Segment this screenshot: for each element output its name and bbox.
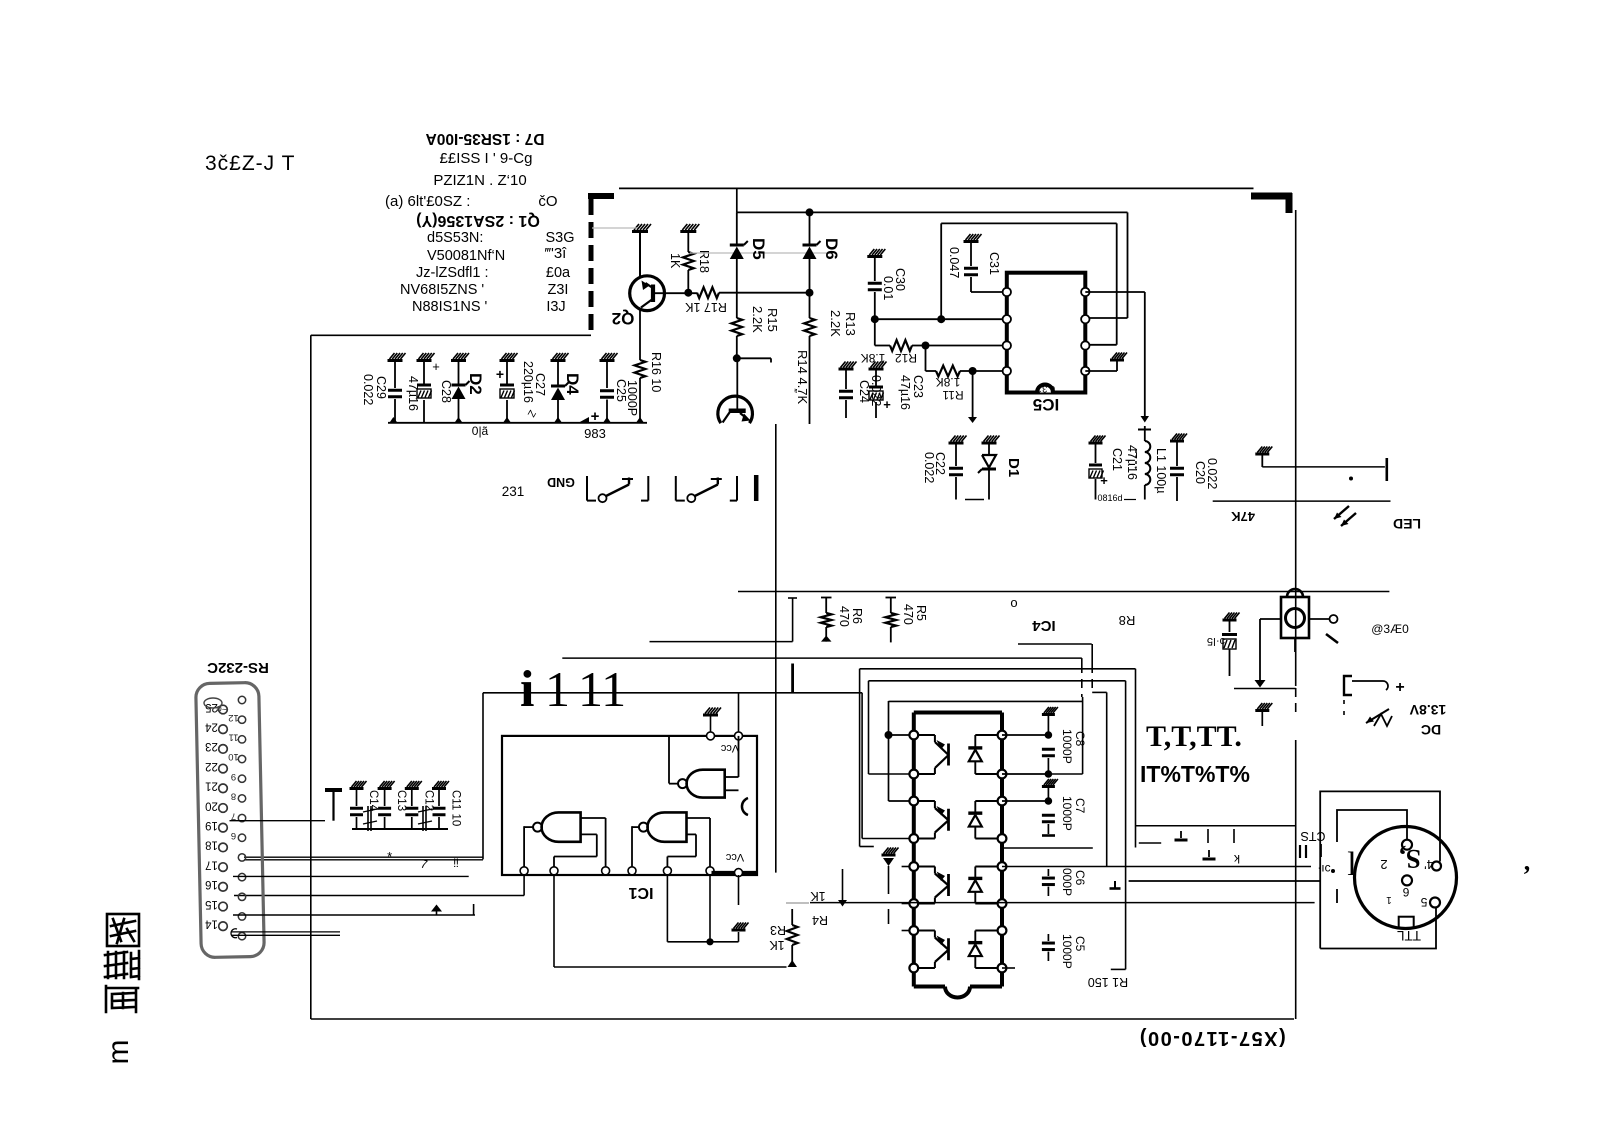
svg-text:1K: 1K bbox=[810, 889, 826, 903]
svg-text:C20: C20 bbox=[1193, 461, 1207, 484]
svg-text:čO: čO bbox=[538, 193, 557, 210]
wire R17 to D6 bbox=[719, 292, 810, 294]
svg-text:13.8V: 13.8V bbox=[1409, 702, 1446, 718]
scan artifact gray line bbox=[592, 227, 637, 229]
capacitor C28 electrolytic bbox=[417, 359, 432, 362]
svg-text:2.2K: 2.2K bbox=[828, 310, 843, 337]
wire down to R11 row bbox=[925, 346, 927, 372]
wire vcc top pin to bus bbox=[738, 693, 740, 736]
transistor Q2 bbox=[630, 276, 665, 311]
wire opto row6 to DIN bbox=[810, 902, 1315, 904]
inductor L1 bbox=[1144, 426, 1146, 441]
wire pin554 down to R3 bottom row bbox=[553, 875, 555, 967]
diode D4 bbox=[551, 359, 566, 362]
capacitor C29 bbox=[388, 359, 403, 362]
capacitor C21 electrolytic bbox=[1089, 442, 1103, 445]
dashed wire x1081 from y658 to opto row2 bbox=[1081, 658, 1083, 664]
svg-text:IC4: IC4 bbox=[1032, 617, 1056, 634]
svg-text:1000P: 1000P bbox=[1060, 729, 1074, 764]
IC5 body bbox=[1007, 273, 1086, 393]
capacitor C23 electrolytic bbox=[869, 368, 884, 371]
thick bar after switches bbox=[754, 475, 759, 501]
svg-text:4': 4' bbox=[1424, 857, 1434, 872]
capacitor C6 bbox=[1047, 869, 1049, 876]
wire 47K row y501 bbox=[1213, 500, 1391, 502]
hash marks noise bbox=[367, 806, 369, 831]
resistor R6 bbox=[825, 598, 827, 614]
svg-text:I3J: I3J bbox=[546, 299, 565, 315]
svg-text:,: , bbox=[1524, 847, 1531, 876]
gray line under R4 bbox=[786, 902, 809, 904]
wire pin2 row y319 bbox=[875, 318, 1007, 320]
node left of opto1 bbox=[885, 731, 893, 739]
wire pin15 row y915 bbox=[233, 914, 475, 916]
svg-text:R12: R12 bbox=[895, 351, 917, 365]
terminal T symbol bbox=[325, 788, 342, 792]
wire pin3 row bbox=[1085, 344, 1116, 346]
IC4 body top edge bbox=[914, 711, 1002, 715]
svg-text:470: 470 bbox=[901, 604, 915, 625]
svg-text:o: o bbox=[1010, 595, 1017, 610]
nand gate G3 bbox=[647, 812, 686, 841]
IC4 body left edge bbox=[912, 713, 916, 987]
svg-text:0|ã: 0|ã bbox=[472, 424, 489, 438]
svg-text:2: 2 bbox=[1380, 857, 1387, 872]
svg-text:C5: C5 bbox=[1073, 936, 1087, 952]
svg-text:C7: C7 bbox=[1073, 798, 1087, 814]
svg-text:+: + bbox=[1100, 473, 1108, 488]
marks near DIN left bbox=[1299, 845, 1301, 858]
svg-text:m: m bbox=[102, 1040, 135, 1065]
svg-text:C29: C29 bbox=[374, 376, 388, 399]
svg-text:1: 1 bbox=[545, 661, 570, 717]
wire x1127 from bus to pin2 right bbox=[1127, 212, 1129, 318]
wire branch y826 to CTS bbox=[1136, 825, 1296, 827]
svg-text:C6: C6 bbox=[1073, 870, 1087, 886]
svg-text:6 31: 6 31 bbox=[1037, 383, 1056, 394]
wire y692 to opto pin4 bbox=[861, 693, 863, 839]
node C30 bottom bbox=[871, 315, 879, 323]
svg-text:11: 11 bbox=[229, 732, 239, 743]
svg-text:0.01: 0.01 bbox=[881, 276, 895, 300]
capacitor C12 bbox=[405, 787, 419, 790]
stub marks bbox=[1207, 829, 1209, 843]
svg-text:14: 14 bbox=[205, 918, 218, 930]
wire node down to pin3 row bbox=[888, 735, 890, 801]
optocoupler unit 2 diode bbox=[974, 801, 976, 813]
capacitor C7 bbox=[1042, 785, 1055, 788]
DB25 right column pins bbox=[238, 696, 245, 703]
svg-text:D4: D4 bbox=[563, 373, 582, 395]
svg-text:0816d: 0816d bbox=[1097, 493, 1122, 503]
svg-text:1K: 1K bbox=[769, 938, 785, 952]
svg-text:TTL: TTL bbox=[1397, 928, 1421, 943]
T mark on row y881 bbox=[1129, 880, 1321, 882]
cap row bus y829 bbox=[352, 828, 448, 830]
LED arrows bbox=[1334, 506, 1349, 519]
wire LED row y467 bbox=[1262, 466, 1385, 468]
wire branch y843 bbox=[1139, 842, 1161, 844]
wire opto row2 extension bbox=[1048, 773, 1082, 775]
wire y669 corner bbox=[860, 668, 1136, 670]
optocoupler unit 3 transistor bbox=[947, 874, 950, 896]
resistor R17 bbox=[697, 287, 719, 298]
capacitor C31 bbox=[964, 240, 979, 243]
T terminals near DIN bbox=[1180, 831, 1182, 838]
svg-text:1000P: 1000P bbox=[625, 380, 639, 416]
right main vertical wire x1296 bbox=[1295, 210, 1297, 686]
svg-text:+: + bbox=[432, 359, 440, 374]
power jack stem bbox=[1294, 638, 1296, 652]
svg-text:T,T,TT.: T,T,TT. bbox=[1146, 720, 1242, 753]
svg-text:17: 17 bbox=[205, 858, 218, 870]
svg-text:6: 6 bbox=[231, 830, 236, 841]
ground right of IC5 bbox=[1110, 359, 1124, 362]
svg-text:9: 9 bbox=[231, 771, 236, 782]
capacitor C30 bbox=[867, 255, 882, 258]
resistor R15 bbox=[731, 318, 742, 336]
svg-text:IT%T%T%: IT%T%T% bbox=[1140, 761, 1250, 787]
svg-text:R5: R5 bbox=[914, 605, 928, 621]
svg-text:*: * bbox=[387, 849, 392, 864]
bus wire y212 bbox=[737, 211, 1128, 213]
svg-text:l: l bbox=[1347, 846, 1356, 883]
DIN pin 1 top bbox=[1402, 840, 1412, 850]
svg-text:23: 23 bbox=[205, 740, 218, 752]
svg-text:47µ16: 47µ16 bbox=[406, 376, 420, 411]
svg-text:C23: C23 bbox=[911, 375, 925, 398]
wires from connector to IC1 double bbox=[244, 856, 483, 858]
stub x792 upper bbox=[791, 664, 794, 693]
svg-text:R4: R4 bbox=[812, 913, 828, 927]
wire IC5 pin1 right to L1 bbox=[1085, 291, 1145, 293]
resistor R16 bbox=[639, 309, 641, 361]
resistor R13 bbox=[804, 318, 815, 336]
svg-text:R15: R15 bbox=[765, 308, 780, 332]
stub with arrow x842 bbox=[842, 869, 844, 900]
node x941 bbox=[937, 315, 945, 323]
node R11 right bbox=[969, 367, 977, 375]
svg-text:15: 15 bbox=[205, 898, 218, 910]
svg-text:CTS: CTS bbox=[1301, 829, 1326, 843]
svg-text:C28: C28 bbox=[439, 380, 453, 403]
svg-text:5: 5 bbox=[1420, 895, 1427, 909]
svg-text:k: k bbox=[1233, 852, 1240, 866]
svg-text:N88IS1NS ': N88IS1NS ' bbox=[412, 299, 488, 315]
svg-text:47µ16: 47µ16 bbox=[898, 375, 912, 410]
ground under IC1 bbox=[738, 932, 740, 942]
svg-text:47µ16: 47µ16 bbox=[1125, 445, 1139, 480]
diode D1 bbox=[982, 442, 997, 445]
svg-text:1: 1 bbox=[1386, 894, 1392, 905]
svg-text:20: 20 bbox=[205, 799, 218, 811]
svg-text:C21: C21 bbox=[1110, 448, 1124, 471]
resistor R11 bbox=[926, 370, 937, 372]
opto lower pin stubs bbox=[902, 866, 910, 868]
wire C30 node down to R12 bbox=[874, 319, 876, 345]
power jack switch arm bbox=[1326, 634, 1338, 643]
svg-text:V50081Nf‘N: V50081Nf‘N bbox=[427, 248, 505, 264]
svg-text:R8: R8 bbox=[1119, 613, 1136, 628]
ground for Q2 collector bbox=[632, 230, 648, 233]
optocoupler unit 1 transistor bbox=[947, 744, 950, 766]
optocoupler unit 4 pins bbox=[909, 926, 918, 935]
wire pin4 from R11 bbox=[973, 370, 1007, 372]
svg-text:D7 : 1SR35-I00A: D7 : 1SR35-I00A bbox=[426, 130, 545, 147]
wire bracket to hook bbox=[1352, 680, 1383, 682]
capacitor C11 bbox=[432, 787, 446, 790]
ground inverted near DC bbox=[1255, 709, 1269, 712]
right corner bracket bbox=[1251, 193, 1292, 200]
svg-text:D1: D1 bbox=[1005, 458, 1022, 477]
wire Q2 base bbox=[655, 292, 697, 294]
optocoupler unit 4 diode bbox=[974, 931, 976, 943]
DIN outer box bbox=[1320, 791, 1440, 948]
wire y688 row bbox=[1234, 688, 1296, 690]
svg-text:i: i bbox=[520, 661, 534, 718]
svg-text:R6: R6 bbox=[850, 608, 864, 624]
IC1 left outer vertical x483 bbox=[482, 693, 484, 860]
optocoupler unit 3 pins bbox=[909, 862, 918, 871]
svg-text:R16 10: R16 10 bbox=[649, 352, 663, 392]
svg-text:£0a: £0a bbox=[546, 265, 571, 281]
DIN inner box bbox=[1337, 810, 1407, 842]
svg-text:19: 19 bbox=[205, 819, 218, 831]
IC1 bottom pins bbox=[520, 867, 528, 875]
svg-text:Z3I: Z3I bbox=[548, 282, 569, 298]
svg-text:££ISS I ' 9-Cg: ££ISS I ' 9-Cg bbox=[440, 150, 533, 167]
wire Q2 collector to ground bbox=[639, 232, 641, 279]
top bus wire y188 bbox=[619, 187, 1254, 189]
curve mark in IC1 bbox=[742, 798, 748, 815]
svg-text:(a) 6lt'£0SZ :: (a) 6lt'£0SZ : bbox=[385, 193, 470, 210]
terminal bar right bbox=[1386, 458, 1389, 481]
ground for R18 bbox=[680, 230, 696, 233]
ground arrow left of IC4 bbox=[882, 854, 896, 857]
node R15 bottom bbox=[733, 354, 741, 362]
svg-text:1K: 1K bbox=[668, 253, 682, 269]
DIN pin 5 lower bbox=[1430, 898, 1440, 908]
svg-text:24: 24 bbox=[205, 721, 218, 733]
capacitor C22 bbox=[949, 442, 964, 445]
optocoupler unit 1 pins bbox=[909, 731, 918, 740]
switch contact S2 bbox=[675, 476, 677, 501]
svg-text:000P: 000P bbox=[1060, 868, 1074, 896]
wire jack left to ground arrow bbox=[1260, 618, 1281, 620]
svg-text:18: 18 bbox=[205, 839, 218, 851]
wire R11 node down stub bbox=[972, 371, 974, 417]
svg-text:Q1 : 2SA1356(Y): Q1 : 2SA1356(Y) bbox=[416, 212, 540, 229]
node R12 right bbox=[922, 342, 930, 350]
IC1 vcc thick bar bbox=[712, 871, 758, 875]
svg-text:‴'3î: ‴'3î bbox=[545, 245, 568, 262]
wire node to transistor Q1 bbox=[736, 358, 738, 408]
svg-text:PZIZ1N . Z‘10: PZIZ1N . Z‘10 bbox=[433, 172, 526, 189]
svg-text:d5S53N:: d5S53N: bbox=[427, 230, 483, 246]
left main vertical wire x311 bbox=[310, 335, 312, 1019]
svg-text:S3G: S3G bbox=[545, 230, 574, 246]
wire loop pins 667-710 bbox=[666, 875, 668, 942]
svg-text:IC1: IC1 bbox=[628, 884, 653, 901]
IC1 top pins bbox=[707, 732, 715, 740]
svg-text:983: 983 bbox=[584, 426, 606, 441]
long vertical wire x776 bbox=[775, 424, 777, 873]
DIN connector circle bbox=[1355, 827, 1457, 929]
dashed wire x1092 from IC4 label to row5 bbox=[1091, 644, 1093, 664]
DIN bottom notch bbox=[1399, 917, 1414, 928]
left dashed border corner bbox=[588, 193, 614, 199]
node D6 top bbox=[806, 208, 814, 216]
svg-text:+: + bbox=[1395, 679, 1404, 696]
wire pin3 from R12 bbox=[926, 345, 1007, 347]
svg-text:10: 10 bbox=[228, 751, 239, 762]
svg-text:47K: 47K bbox=[1230, 509, 1254, 524]
optocoupler unit 1 diode bbox=[974, 735, 976, 748]
IC4 body bottom edge with notch bbox=[914, 985, 945, 989]
wire vcc pin stub down bbox=[738, 875, 740, 905]
IC1 box bbox=[502, 736, 757, 875]
optocoupler unit 2 transistor bbox=[947, 809, 950, 831]
wire y693 bus bbox=[483, 692, 862, 694]
svg-text:R13: R13 bbox=[843, 312, 858, 336]
DB25 connector body bbox=[196, 682, 265, 957]
bus wire y658 bbox=[562, 657, 1082, 659]
svg-text:GND: GND bbox=[547, 475, 575, 489]
wire y701 from node to x1082 bbox=[889, 700, 1083, 702]
ferrite bracket bbox=[1344, 676, 1352, 695]
svg-text:S,: S, bbox=[1399, 844, 1421, 874]
svg-text:NV68I5ZNS ': NV68I5ZNS ' bbox=[400, 282, 484, 298]
bottom bus wire y1019 bbox=[311, 1018, 1294, 1020]
svg-text:22: 22 bbox=[205, 760, 218, 772]
wire pin17 row y876 bbox=[233, 875, 469, 877]
capacitor C24 bbox=[839, 368, 854, 371]
DB25 left column pins bbox=[219, 705, 228, 714]
resistor R3 bbox=[791, 909, 793, 925]
wire y223 row bbox=[941, 222, 1116, 224]
wire opto row5 to DIN bbox=[1002, 866, 1311, 868]
DIN pin 4 right bbox=[1432, 862, 1441, 871]
svg-text:0.047: 0.047 bbox=[947, 247, 961, 278]
IC4 body right edge bbox=[1000, 713, 1004, 987]
transistor Q1 (lower) bbox=[718, 396, 753, 423]
capacitor C25 bbox=[600, 359, 615, 362]
capacitor C5 bbox=[1047, 934, 1049, 941]
power jack right contact bbox=[1309, 618, 1330, 620]
switch contact S1 bbox=[586, 476, 588, 501]
optocoupler unit 3 diode bbox=[974, 867, 976, 879]
svg-text:0.022: 0.022 bbox=[1205, 458, 1219, 489]
DC input arrow bbox=[1366, 709, 1389, 723]
wire y848 from IC4 edge bbox=[1004, 847, 1093, 849]
DIN connector wires from left bbox=[1129, 880, 1321, 882]
small dot mark bbox=[1349, 477, 1353, 481]
svg-text:IC5: IC5 bbox=[1033, 395, 1059, 414]
svg-text:R14 4.7K: R14 4.7K bbox=[795, 350, 810, 405]
svg-text:L1 100µ: L1 100µ bbox=[1154, 448, 1168, 493]
svg-text:‴: ‴ bbox=[787, 388, 798, 393]
svg-text:D5: D5 bbox=[749, 238, 768, 260]
nand gate G1 bbox=[687, 770, 725, 798]
ground at LED wire bbox=[1255, 453, 1269, 456]
svg-text:0.022: 0.022 bbox=[361, 374, 375, 405]
node R17/R13 bbox=[806, 289, 814, 297]
wire x1135 down with branches bbox=[1135, 669, 1137, 848]
svg-text:11: 11 bbox=[578, 661, 626, 717]
wire IC5 pin4 to ground bbox=[1085, 370, 1117, 372]
svg-text:ɔ·ǀ5: ɔ·ǀ5 bbox=[1207, 635, 1225, 647]
line under IC4 label bbox=[1018, 643, 1092, 645]
svg-text:1000P: 1000P bbox=[1060, 796, 1074, 831]
wire D5 to R15 bbox=[736, 259, 738, 318]
svg-text:Q2: Q2 bbox=[612, 309, 635, 328]
resistor R5 bbox=[890, 598, 892, 614]
DIN pin center bbox=[1402, 875, 1412, 885]
svg-text:8: 8 bbox=[231, 791, 236, 802]
wire under parts list y335 bbox=[311, 334, 591, 336]
svg-text:16: 16 bbox=[205, 878, 218, 890]
svg-text:D6: D6 bbox=[822, 238, 841, 260]
svg-text:R3: R3 bbox=[770, 923, 786, 937]
svg-text:470: 470 bbox=[837, 606, 851, 627]
svg-text:231: 231 bbox=[502, 484, 525, 499]
power jack inner circle bbox=[1286, 609, 1305, 628]
stub end y915 bbox=[473, 904, 475, 915]
svg-text:ɔı·: ɔı· bbox=[1317, 862, 1330, 876]
capacitor C27 electrolytic bbox=[500, 359, 515, 362]
resistor R18 bbox=[687, 232, 689, 253]
svg-text:@3Æ0: @3Æ0 bbox=[1371, 622, 1409, 636]
wire top bus to D5 bbox=[736, 188, 738, 212]
resistor R12 bbox=[875, 345, 890, 347]
diode D5 bbox=[730, 244, 744, 247]
svg-text:Vcc: Vcc bbox=[725, 851, 744, 863]
cap row bus wire y423 bbox=[388, 422, 647, 424]
capacitor C14 bbox=[350, 787, 364, 790]
wire node to right stub bbox=[737, 357, 771, 359]
wire x1125 long down bbox=[1125, 681, 1127, 970]
wire pin19 row y821 bbox=[230, 820, 326, 822]
svg-text:1000P: 1000P bbox=[1060, 934, 1074, 969]
svg-text:12: 12 bbox=[228, 712, 239, 723]
svg-text:LED: LED bbox=[1393, 516, 1421, 532]
wire pin14 double pair bbox=[231, 931, 340, 933]
optocoupler unit 2 pins bbox=[909, 797, 918, 806]
svg-text:21: 21 bbox=[205, 780, 218, 792]
svg-text:+: + bbox=[591, 408, 600, 425]
svg-text:C8: C8 bbox=[1073, 731, 1087, 747]
capacitor C20 bbox=[1170, 440, 1184, 443]
nand gate G2 bbox=[542, 812, 581, 841]
svg-text:0.022: 0.022 bbox=[922, 452, 936, 483]
svg-text:RS-232C: RS-232C bbox=[207, 659, 269, 676]
optocoupler unit 4 transistor bbox=[947, 938, 950, 960]
wire y681 corner to opto pin2 bbox=[869, 680, 1126, 682]
svg-text:+: + bbox=[496, 366, 504, 382]
ground above IC1 bbox=[703, 714, 718, 717]
diode D6 bbox=[809, 212, 811, 245]
svg-text:DC: DC bbox=[1421, 722, 1441, 738]
wire y642 with stub up bbox=[650, 641, 793, 643]
svg-text:3č£Z-J T: 3č£Z-J T bbox=[205, 152, 295, 175]
svg-text:C11 10: C11 10 bbox=[450, 790, 462, 826]
svg-text:Jz-lZSdfl1 :: Jz-lZSdfl1 : bbox=[416, 265, 489, 281]
terminal triangle on y915 bbox=[431, 905, 442, 912]
svg-text:D2: D2 bbox=[466, 373, 485, 395]
node Q2 base / R18 bbox=[684, 289, 692, 297]
caption chinese yuan-li-tu bbox=[105, 914, 139, 1012]
svg-text:220µ16: 220µ16 bbox=[521, 361, 535, 403]
